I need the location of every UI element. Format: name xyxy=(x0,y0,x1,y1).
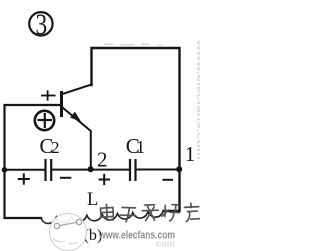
svg-text:L: L xyxy=(87,190,98,210)
svg-text:3: 3 xyxy=(35,7,47,40)
svg-text:com: com xyxy=(156,240,175,249)
svg-text:www.elecfans.com: www.elecfans.com xyxy=(195,39,200,160)
svg-text:1: 1 xyxy=(136,137,145,157)
svg-text:2: 2 xyxy=(51,138,60,157)
svg-text:1: 1 xyxy=(185,142,196,166)
svg-text:2: 2 xyxy=(97,147,108,171)
